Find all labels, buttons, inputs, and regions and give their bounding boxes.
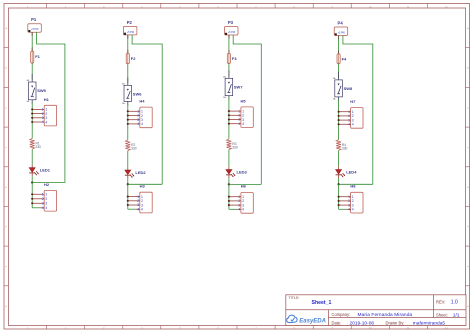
svg-text:Date:: Date:: [332, 320, 342, 325]
svg-text:LED1: LED1: [40, 168, 51, 173]
svg-text:P4: P4: [338, 21, 344, 26]
wire: [228, 175, 230, 178]
wire: [127, 104, 129, 140]
svg-text:330: 330: [232, 146, 238, 150]
connector P4: [334, 21, 348, 36]
resistor R4: [336, 140, 347, 151]
wire: [338, 36, 340, 54]
svg-text:330: 330: [36, 145, 42, 149]
header H6: [228, 184, 253, 214]
wire: [339, 183, 373, 185]
junction: [127, 183, 129, 185]
svg-text:4: 4: [348, 208, 350, 212]
svg-text:H3: H3: [140, 184, 146, 189]
svg-text:SW8: SW8: [344, 86, 353, 91]
svg-text:F4: F4: [342, 57, 347, 62]
connector P2: [123, 20, 136, 35]
wire: [127, 151, 129, 167]
svg-text:Drawn By:: Drawn By:: [386, 320, 405, 325]
svg-text:3: 3: [45, 202, 47, 206]
svg-text:SW5: SW5: [37, 88, 46, 93]
svg-text:H2: H2: [44, 182, 50, 187]
header H4: [127, 99, 152, 128]
resistor R1: [30, 138, 41, 149]
svg-text:G: G: [5, 266, 7, 268]
svg-text:2: 2: [45, 197, 47, 201]
svg-text:SW7: SW7: [234, 85, 243, 90]
svg-text:H7: H7: [350, 99, 356, 104]
svg-text:mafermiranda5: mafermiranda5: [413, 321, 446, 327]
wire: [127, 64, 129, 83]
LED LED4: [336, 170, 358, 178]
resistor R3: [227, 139, 238, 150]
svg-text:4: 4: [45, 206, 47, 210]
svg-text:2: 2: [42, 197, 44, 201]
svg-text:+5 PW: +5 PW: [338, 31, 346, 34]
svg-text:330: 330: [342, 146, 348, 150]
wire: [229, 183, 261, 185]
wire: [31, 102, 33, 138]
svg-text:LED3: LED3: [237, 170, 248, 175]
svg-text:+5 PW: +5 PW: [31, 28, 39, 31]
fuse F3: [227, 53, 237, 63]
svg-text:1.0: 1.0: [451, 300, 458, 306]
switch SW5: [26, 74, 46, 104]
svg-text:Sheet_1: Sheet_1: [312, 300, 332, 306]
header H2: [31, 182, 56, 211]
switch SW8: [333, 72, 353, 101]
LED LED1: [29, 168, 51, 176]
svg-text:4: 4: [141, 122, 143, 126]
svg-text:H4: H4: [139, 99, 145, 104]
svg-text:F1: F1: [35, 54, 40, 59]
fuse F1: [31, 51, 41, 63]
junction: [228, 183, 230, 185]
wire: [37, 32, 65, 182]
header H1: [31, 97, 56, 126]
svg-text:REV:: REV:: [436, 300, 445, 305]
svg-text:EasyEDA: EasyEDA: [299, 318, 326, 324]
svg-text:+5 PW: +5 PW: [127, 31, 135, 34]
svg-text:F3: F3: [232, 56, 237, 61]
svg-text:4: 4: [238, 208, 240, 212]
header H5: [228, 99, 253, 128]
svg-text:+5 PW: +5 PW: [228, 31, 236, 34]
wire: [338, 150, 340, 166]
wire: [228, 150, 230, 167]
svg-text:330: 330: [131, 147, 137, 151]
svg-text:4: 4: [45, 120, 47, 124]
svg-text:1/1: 1/1: [453, 313, 460, 319]
svg-text:P2: P2: [127, 20, 133, 25]
fuse F2: [126, 53, 136, 64]
header H8: [338, 184, 363, 213]
svg-text:F2: F2: [131, 56, 136, 61]
switch SW7: [223, 70, 243, 99]
wire: [228, 98, 230, 139]
svg-text:G: G: [467, 266, 469, 268]
svg-text:4: 4: [242, 208, 244, 212]
svg-text:4: 4: [42, 120, 44, 124]
svg-text:Company:: Company:: [332, 312, 351, 317]
wire: [338, 99, 340, 140]
wire: [338, 175, 340, 178]
wire: [132, 35, 162, 184]
svg-text:LED2: LED2: [135, 170, 146, 175]
svg-text:TITLE:: TITLE:: [289, 296, 300, 300]
wire: [128, 183, 162, 185]
svg-text:P1: P1: [31, 17, 37, 22]
svg-text:4: 4: [242, 122, 244, 126]
svg-text:3: 3: [42, 202, 44, 206]
switch SW6: [122, 77, 142, 105]
wire: [127, 175, 129, 178]
wire: [228, 35, 230, 53]
fuse F4: [337, 54, 347, 64]
wire: [32, 182, 65, 184]
wire: [127, 35, 129, 53]
LED LED3: [226, 170, 248, 178]
header H3: [127, 184, 152, 213]
wire: [31, 149, 33, 164]
wire: [233, 35, 261, 184]
svg-text:H6: H6: [241, 184, 247, 189]
svg-text:H8: H8: [350, 184, 356, 189]
connector P3: [225, 20, 239, 35]
svg-text:4: 4: [352, 208, 354, 212]
wire: [31, 32, 33, 51]
wire: [31, 173, 33, 176]
header H7: [338, 99, 363, 128]
resistor R2: [125, 140, 136, 151]
junction: [337, 183, 339, 185]
svg-text:4: 4: [137, 122, 139, 126]
svg-text:4: 4: [141, 208, 143, 212]
svg-text:4: 4: [348, 123, 350, 127]
svg-text:Sheet:: Sheet:: [436, 312, 448, 317]
wire: [338, 64, 340, 78]
svg-text:H1: H1: [44, 97, 50, 102]
svg-text:4: 4: [137, 207, 139, 211]
svg-text:P3: P3: [228, 20, 234, 25]
wire: [31, 63, 33, 80]
wire: [343, 36, 373, 185]
svg-text:2019-10-06: 2019-10-06: [350, 321, 375, 327]
connector P1: [28, 17, 42, 32]
LED LED2: [125, 170, 147, 178]
svg-text:H5: H5: [241, 99, 247, 104]
svg-text:4: 4: [238, 122, 240, 126]
svg-text:4: 4: [352, 123, 354, 127]
svg-text:4: 4: [42, 206, 44, 210]
svg-text:SW6: SW6: [133, 92, 142, 97]
svg-text:Maria Fernanda Miranda: Maria Fernanda Miranda: [358, 312, 413, 318]
wire: [228, 64, 230, 77]
svg-text:LED4: LED4: [346, 170, 357, 175]
junction: [31, 181, 33, 183]
svg-text:1: 1: [42, 193, 44, 197]
svg-text:1: 1: [45, 193, 47, 197]
